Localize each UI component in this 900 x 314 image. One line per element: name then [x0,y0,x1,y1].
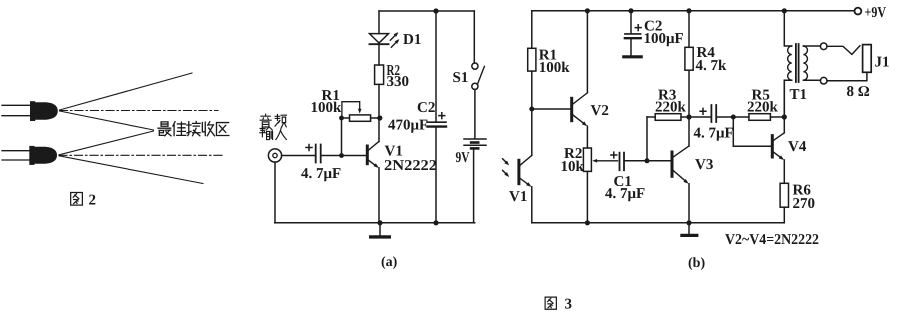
terminal secondary top [820,43,827,50]
trimmer R1 [342,102,380,122]
wire emitter V3 to rail [688,184,690,223]
battery 9V [464,139,486,150]
capacitor C2 (a) [427,11,446,223]
svg-text:220k: 220k [747,100,779,116]
wire S1 to battery [474,90,476,139]
junction R1 left [339,116,344,121]
wire C-in to base V1 [322,155,367,157]
beam line upper (bottom LED) [59,131,154,155]
wire top rail (a) [379,10,474,12]
junction emitter/ground (a) [377,220,382,225]
wire R2 to bottom rail [586,171,588,222]
wire R1 to base node [341,118,343,156]
wire D1 to R2 [378,44,380,65]
junction R2 bottom rail [585,220,590,225]
wire collector V3 riser [688,70,690,146]
junction V3 emitter rail / ground [686,220,691,225]
svg-text:100k: 100k [311,100,343,116]
beam line lower (bottom LED) [59,156,203,184]
wire rail to D1 [378,11,380,33]
wire top rail (b) [532,10,854,12]
junction R3 bottom / base V3 [645,158,650,163]
svg-text:9V: 9V [456,150,470,166]
IR LED emitter bottom (fig2) [2,146,57,165]
beam axis dash-dot (top LED) [60,110,219,112]
label best-reception-zone (zui jia jie shou qu) [158,122,229,136]
wire R2 to collector V1 [378,84,380,141]
svg-text:2: 2 [89,193,97,209]
beam line upper (top LED) [60,73,193,110]
svg-text:4. 7μF: 4. 7μF [694,126,734,142]
svg-text:3: 3 [565,297,573,313]
transistor V3 [672,146,689,184]
wire emitter V1 to rail [378,168,380,223]
label audio-in (yin pin / shu ru) [260,114,287,139]
svg-text:V4: V4 [788,139,807,155]
junction C2/rail (b) [628,8,633,13]
svg-text:10k: 10k [561,159,585,175]
wire rail to S1 [473,11,475,63]
phototransistor V1 (b) [503,155,532,186]
svg-text:T1: T1 [790,87,808,103]
junction R4/rail [686,8,691,13]
wire jack to C-in [282,155,315,157]
svg-text:S1: S1 [453,70,469,86]
transformer T1 secondary [803,46,820,80]
resistor R5 [733,114,784,121]
junction R1 right / collector line [377,115,382,120]
ground (b) [682,223,697,236]
LED D1 [370,32,400,47]
transistor V1 (a) [367,141,379,168]
beam line lower (top LED) [60,111,154,130]
svg-text:100μF: 100μF [644,31,684,47]
svg-text:V2~V4=2N2222: V2~V4=2N2222 [725,232,819,248]
resistor R2 [375,65,384,84]
svg-text:470μF: 470μF [388,118,428,134]
IR LED emitter top (fig2) [2,101,58,121]
wire R6 to bottom rail [783,207,785,223]
svg-text:V2: V2 [591,103,609,119]
svg-text:100k: 100k [539,60,571,76]
junction T1/rail [782,8,787,13]
caption fig 3 [545,297,572,313]
resistor R1 (b) [528,48,536,71]
capacitor C2 (b) [625,11,641,55]
wire rail to R4 [688,11,690,48]
wire R3 riser [646,117,648,161]
svg-text:+9V: +9V [865,5,887,21]
wire rail to R1 (b) [531,11,533,49]
wire base V4 [733,117,771,146]
wire V1 collector rise (b) [531,109,533,155]
wire emitter V2 to R2 [586,126,588,148]
svg-text:4. 7μF: 4. 7μF [605,186,645,202]
transistor V2 [572,93,588,126]
svg-text:(b): (b) [688,256,705,271]
wire V3 collector row [689,116,711,118]
junction R5 right / collector V4 [782,114,787,119]
wire bottom rail (b) [532,222,785,224]
capacitor C1 [611,152,624,170]
wire base V2 [532,108,571,110]
svg-text:D1: D1 [403,32,421,48]
svg-text:V1: V1 [509,189,527,205]
capacitor C-in 4.7uF (a) [306,145,321,163]
capacitor 4.7uF interstage [700,105,716,122]
jack J1 [827,45,871,81]
svg-text:V3: V3 [695,157,713,173]
junction top rail / C2 (a) [433,8,438,13]
junction base node (a) [339,153,344,158]
ground (a) [371,223,390,237]
wire cap to R5 node [717,116,734,118]
input jack (a) [268,149,281,162]
terminal +9V [855,8,862,15]
switch S1 [472,63,485,90]
junction V2 collector/rail [585,8,590,13]
svg-text:8 Ω: 8 Ω [847,84,870,100]
wire collector V2 to rail [586,11,588,93]
ground C2 (b) [624,55,641,58]
wire R1 to base node V2 [531,71,533,109]
svg-text:220k: 220k [655,100,687,116]
transformer T1 primary [784,11,791,117]
junction R3 right / collector V3 [686,114,691,119]
svg-text:270: 270 [793,196,816,212]
svg-text:J1: J1 [875,55,890,71]
terminal secondary bottom [820,77,827,84]
wire battery to rail [473,150,475,223]
wire collector V4 riser [783,80,785,133]
svg-text:330: 330 [387,74,410,90]
caption fig 2 [71,192,96,208]
wire emitter V4 to R6 [783,160,785,183]
svg-text:2N2222: 2N2222 [384,158,437,174]
beam axis dash-dot (bottom LED) [59,154,222,156]
wire left drop (a) [274,162,276,223]
resistor R6 [780,183,788,207]
resistor R3 [647,114,689,121]
transformer T1 core [796,44,799,82]
svg-text:4. 7k: 4. 7k [696,58,728,74]
junction C2 bottom (a) [433,220,438,225]
wire emitter V1 to rail (b) [531,187,533,223]
wire bottom rail (a) [275,222,475,224]
potentiometer R2 (b) [583,148,617,171]
wire C1 to base V3 [625,160,671,162]
junction base node V2 [529,107,534,112]
junction base node V4 [731,115,736,120]
svg-text:C2: C2 [417,100,435,116]
svg-text:4. 7μF: 4. 7μF [301,166,341,182]
svg-text:(a): (a) [381,255,398,270]
transistor V4 [772,133,784,160]
resistor R4 [685,47,693,70]
